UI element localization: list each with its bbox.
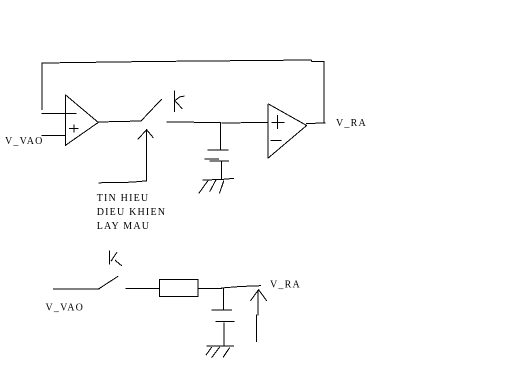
- svg-text:V_VAO: V_VAO: [46, 303, 85, 314]
- switch K blade (bottom): [99, 276, 118, 289]
- wire U1 output: [98, 121, 141, 122]
- minus sign U2: [271, 139, 281, 141]
- arrow control signal: [99, 130, 153, 183]
- wire switch to node A: [167, 121, 220, 124]
- wire output node horizontal: [307, 122, 326, 125]
- capacitor C1 bottom plate: [205, 159, 229, 161]
- wire non-inverting input U1: [42, 134, 66, 136]
- wire inverting input U1: [42, 113, 76, 115]
- ground (top): [199, 178, 234, 193]
- capacitor C2 top lead: [222, 288, 224, 309]
- label K (bottom switch): [110, 251, 122, 266]
- capacitor C1 top plate: [208, 149, 228, 151]
- wire input (bottom): [54, 288, 99, 290]
- wire resistor to node B: [198, 287, 222, 289]
- svg-text:TIN HIEU: TIN HIEU: [97, 193, 150, 204]
- svg-text:V_RA: V_RA: [270, 279, 301, 290]
- capacitor C1 bottom lead: [221, 162, 223, 180]
- wire switch to resistor: [126, 287, 160, 289]
- op-amp U1: [66, 95, 99, 145]
- capacitor C2 bottom plate: [216, 321, 234, 323]
- svg-text:V_RA: V_RA: [336, 118, 367, 129]
- plus sign U1: [70, 125, 79, 132]
- svg-text:DIEU KHIEN: DIEU KHIEN: [97, 207, 167, 218]
- svg-text:V_VAO: V_VAO: [5, 136, 44, 147]
- wire node A to U2 input: [222, 121, 268, 124]
- wire feedback top horizontal: [42, 60, 324, 63]
- wire feedback left vertical: [41, 63, 43, 110]
- capacitor C2 top plate: [212, 309, 232, 311]
- wire node B to output: [222, 286, 261, 288]
- capacitor C1 top lead: [219, 123, 221, 149]
- arrow V_RA (bottom): [251, 290, 267, 342]
- capacitor C2 bottom lead: [223, 323, 225, 346]
- label K (top switch): [175, 91, 185, 112]
- plus sign U2: [272, 116, 284, 129]
- wire feedback right vertical: [323, 62, 325, 123]
- svg-text:LAY MAU: LAY MAU: [97, 221, 151, 232]
- switch K blade (top): [141, 99, 162, 121]
- resistor R1: [160, 280, 199, 297]
- op-amp U2: [268, 104, 307, 158]
- ground (bottom): [206, 346, 233, 357]
